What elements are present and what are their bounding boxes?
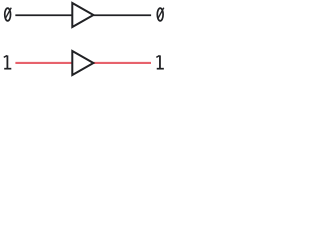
wire (bottom output net, value 1, carrying current): [93, 62, 151, 64]
value label 1 (input, bottom row): [4, 55, 12, 69]
buffer gate U1 (top): [72, 3, 93, 27]
buffer gate U2 (bottom): [72, 51, 93, 75]
value label 1 (output, bottom row): [156, 55, 164, 69]
wire (bottom input net, value 1, carrying current): [15, 62, 72, 64]
wire (top output net, value 0): [93, 14, 151, 16]
value label 0 (input, top row): [5, 8, 12, 21]
value label 0 (output, top row): [157, 8, 164, 21]
wire (top input net, value 0): [15, 14, 72, 16]
